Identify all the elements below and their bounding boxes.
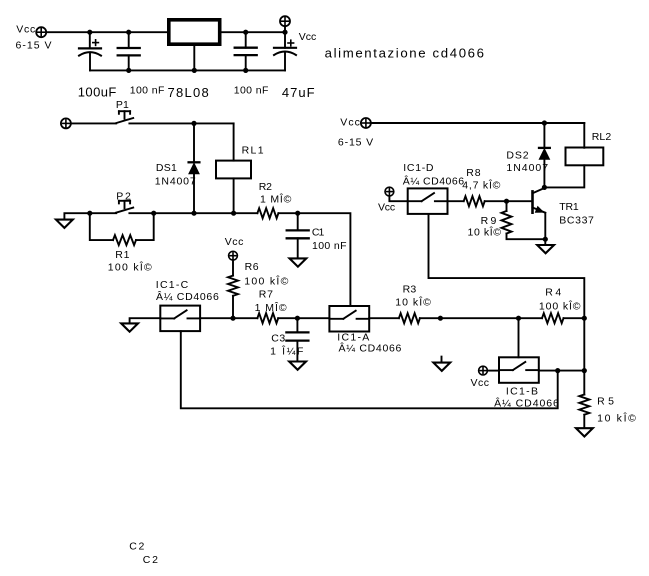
capacitor 100nF-a lead bottom	[128, 55, 130, 70]
svg-text:C1: C1	[312, 227, 325, 239]
capacitor C1 lead top	[297, 213, 299, 230]
ground emitter stem	[544, 239, 546, 245]
capacitor C 100nF-b	[235, 48, 257, 55]
pushbutton P2	[116, 201, 133, 213]
capacitor C 100uF	[79, 48, 101, 55]
capacitor 47uF lead bottom	[284, 52, 286, 70]
resistor R6 lead bottom	[232, 296, 234, 318]
wire IC1-B out	[539, 370, 585, 372]
node cap1 top	[87, 30, 92, 35]
wire RL1 bottom	[233, 178, 235, 213]
svg-text:1N4007: 1N4007	[155, 175, 196, 187]
resistor R3	[399, 313, 420, 323]
power output terminal Vcc	[280, 16, 290, 26]
svg-text:RL2: RL2	[592, 131, 612, 143]
relay RL2 box	[566, 148, 604, 166]
op switch IC1-C box	[160, 306, 200, 332]
diode DS2 lead top	[543, 123, 545, 148]
node R3 right	[438, 316, 443, 321]
plus mark 100uF	[93, 40, 99, 46]
wire R2 to C1 node	[278, 212, 297, 214]
ground C1	[290, 258, 307, 266]
capacitor C1 lead bottom	[297, 238, 299, 258]
svg-text:1 MÎ©: 1 MÎ©	[255, 301, 287, 314]
svg-text:R9: R9	[481, 215, 497, 227]
diode DS2 lead bottom	[543, 159, 545, 187]
wire RL2 drop	[583, 123, 585, 148]
node DS1 top	[191, 121, 196, 126]
wire right rail	[371, 122, 585, 124]
svg-text:100 kÎ©: 100 kÎ©	[108, 261, 152, 274]
plus mark 47uF	[288, 40, 294, 46]
wire R1 right rise	[136, 213, 154, 240]
resistor R5	[579, 395, 589, 415]
node R1 right	[151, 211, 156, 216]
svg-text:R4: R4	[545, 286, 561, 298]
svg-text:100 nF: 100 nF	[130, 84, 165, 96]
wire Vcc to IC1-D	[389, 196, 407, 201]
svg-text:R2: R2	[259, 181, 272, 193]
svg-text:C2: C2	[143, 554, 158, 566]
svg-text:Vcc: Vcc	[299, 31, 317, 43]
resistor R2	[257, 208, 278, 218]
svg-text:DS1: DS1	[156, 162, 177, 174]
svg-text:R7: R7	[259, 288, 273, 300]
svg-text:DS2: DS2	[506, 149, 528, 161]
capacitor 100uF lead top	[89, 32, 91, 48]
svg-text:10 kÎ©: 10 kÎ©	[395, 296, 431, 309]
svg-text:R6: R6	[245, 261, 259, 273]
ground emitter	[537, 245, 554, 253]
svg-text:alimentazione cd4066: alimentazione cd4066	[325, 46, 484, 61]
svg-text:Vcc: Vcc	[378, 201, 395, 213]
svg-text:1N4007: 1N4007	[506, 162, 548, 174]
resistor R7	[257, 313, 278, 323]
wire Vcc to IC1-B	[487, 370, 499, 372]
node R5 top	[582, 368, 587, 373]
wire mid rail	[154, 212, 258, 214]
wire R4 right	[564, 317, 585, 319]
regulator ground pin	[193, 44, 195, 70]
svg-text:TR1: TR1	[559, 201, 579, 213]
wire input rail	[46, 31, 167, 33]
capacitor C1	[287, 230, 309, 238]
svg-text:IC1-C: IC1-C	[156, 279, 189, 291]
wire ground rail	[90, 69, 285, 71]
resistor R8	[464, 196, 485, 206]
wire IC1-D control drop	[429, 214, 585, 318]
svg-text:100 kÎ©: 100 kÎ©	[244, 275, 288, 288]
svg-text:R5: R5	[597, 396, 614, 408]
svg-text:C2: C2	[129, 540, 144, 552]
svg-text:1 Î¼F: 1 Î¼F	[270, 345, 303, 358]
node output terminal junction	[282, 30, 287, 35]
node emitter gnd	[543, 237, 548, 242]
diode DS1 lead bottom	[193, 174, 195, 214]
capacitor C3 lead bottom	[296, 341, 298, 362]
svg-text:1 MÎ©: 1 MÎ©	[260, 193, 292, 206]
svg-text:6-15 V: 6-15 V	[16, 40, 52, 52]
node base	[504, 199, 509, 204]
power input terminal Vcc	[36, 27, 46, 37]
node C1 top	[295, 211, 300, 216]
wire to P1	[71, 122, 116, 124]
wire RL2 bottom	[544, 165, 584, 187]
terminal Vcc IC1-D	[385, 187, 394, 196]
node cap2 bottom	[126, 68, 131, 73]
wire emitter	[544, 213, 546, 239]
resistor R4	[542, 313, 564, 323]
wire IC1-A out	[369, 317, 399, 319]
ground floating	[433, 357, 450, 371]
wire R8 to base node	[485, 200, 507, 202]
wire IC1-D out	[448, 200, 464, 202]
svg-text:R1: R1	[115, 249, 129, 261]
wire output terminal lead	[284, 26, 286, 32]
wire C1 node to IC1-A control	[298, 213, 351, 306]
svg-text:Vcc: Vcc	[471, 377, 490, 389]
capacitor C 100nF-a	[118, 48, 140, 55]
svg-text:10 kÎ©: 10 kÎ©	[468, 226, 502, 239]
resistor R1	[113, 235, 136, 245]
svg-text:4,7 kÎ©: 4,7 kÎ©	[462, 179, 500, 192]
node RL1 bottom	[231, 211, 236, 216]
transistor Q TR1 BC337	[533, 188, 546, 213]
resistor R6	[228, 276, 238, 296]
svg-text:BC337: BC337	[559, 215, 594, 227]
svg-text:Vcc: Vcc	[225, 236, 244, 248]
svg-text:100 kÎ©: 100 kÎ©	[539, 300, 581, 313]
svg-text:47uF: 47uF	[282, 85, 315, 100]
resistor R5 lead bottom	[583, 415, 585, 429]
svg-text:100 nF: 100 nF	[312, 240, 347, 252]
terminal Vcc right	[361, 118, 371, 128]
wire IC1-C control pin	[180, 330, 182, 332]
node DS1 bottom	[191, 211, 196, 216]
node C3 top	[295, 316, 300, 321]
ground left	[56, 220, 73, 228]
ground left rail stem	[64, 213, 116, 219]
svg-text:10 kÎ©: 10 kÎ©	[597, 412, 636, 425]
wire RL1 drop	[233, 123, 235, 160]
op switch IC1-D box	[408, 188, 448, 214]
diode DS2 1N4007	[539, 148, 550, 159]
svg-text:Vcc: Vcc	[16, 24, 35, 36]
svg-text:Â¼ CD4066: Â¼ CD4066	[403, 175, 464, 188]
diode DS1 1N4007	[189, 162, 200, 173]
terminal Vcc IC1-B	[479, 366, 488, 375]
pushbutton P1	[116, 111, 133, 123]
node feedback	[555, 368, 560, 373]
wire P1 to node	[129, 122, 233, 124]
wire R1 left drop	[90, 213, 113, 240]
relay RL1 box	[216, 161, 251, 179]
svg-text:RL1: RL1	[242, 145, 264, 157]
svg-text:Â¼ CD4066: Â¼ CD4066	[156, 290, 219, 303]
svg-text:C3: C3	[271, 333, 285, 345]
wire IC1-C out	[200, 317, 257, 319]
wire feedback loop	[181, 331, 558, 408]
terminal Vcc R6	[229, 251, 238, 260]
wire R7 to IC1-A	[278, 317, 329, 319]
op switch IC1-A box	[329, 306, 369, 332]
svg-text:100 nF: 100 nF	[234, 84, 269, 96]
svg-text:Vcc: Vcc	[340, 117, 360, 129]
node R4 right	[582, 316, 587, 321]
svg-text:6-15 V: 6-15 V	[338, 136, 373, 148]
capacitor C3 lead top	[296, 318, 298, 332]
capacitor 100nF-a lead top	[128, 32, 130, 48]
node R1 left	[87, 211, 92, 216]
resistor R9	[502, 211, 512, 234]
capacitor 100nF-b lead top	[245, 32, 247, 48]
wire main to R4	[440, 317, 542, 319]
svg-text:P1: P1	[116, 99, 129, 111]
svg-text:Â¼ CD4066: Â¼ CD4066	[339, 342, 402, 355]
ground IC1-C stem	[130, 318, 161, 323]
regulator U 78L08 box	[169, 20, 220, 44]
resistor R9 lead bottom	[507, 234, 546, 240]
wire output rail	[222, 31, 286, 33]
capacitor 100uF lead bottom	[89, 53, 91, 71]
wire P2 to node	[129, 212, 153, 214]
diode DS1 lead top	[193, 123, 195, 162]
terminal Vcc P1	[61, 118, 71, 128]
node DS2 top	[542, 120, 547, 125]
ground C3	[289, 362, 306, 370]
node collector	[542, 185, 547, 190]
ground IC1-C	[121, 323, 138, 331]
svg-text:100uF: 100uF	[78, 85, 117, 100]
wire R4 node to R5 node	[583, 318, 585, 394]
node cap2 top	[126, 30, 131, 35]
resistor R6 lead top	[232, 260, 234, 276]
svg-text:IC1-D: IC1-D	[403, 162, 434, 174]
capacitor 100nF-b lead bottom	[245, 55, 247, 70]
wire R3 to node	[420, 317, 441, 319]
resistor R9 lead top	[506, 201, 508, 211]
node cap3 top	[243, 30, 248, 35]
wire base	[507, 200, 533, 202]
svg-text:R8: R8	[466, 167, 481, 179]
capacitor C 47uF	[274, 48, 296, 55]
node regulator gnd	[192, 68, 197, 73]
capacitor 47uF lead top	[284, 32, 286, 48]
node IC1-B control	[516, 316, 521, 321]
wire IC1-B control drop	[518, 318, 520, 357]
svg-text:R3: R3	[403, 284, 417, 296]
capacitor C3	[286, 332, 308, 340]
svg-text:78L08: 78L08	[168, 85, 209, 100]
svg-text:IC1-B: IC1-B	[506, 386, 538, 398]
node R6 bottom	[230, 316, 235, 321]
ground R5	[576, 428, 593, 436]
node cap3 bottom	[243, 68, 248, 73]
op switch IC1-B box	[499, 357, 539, 383]
